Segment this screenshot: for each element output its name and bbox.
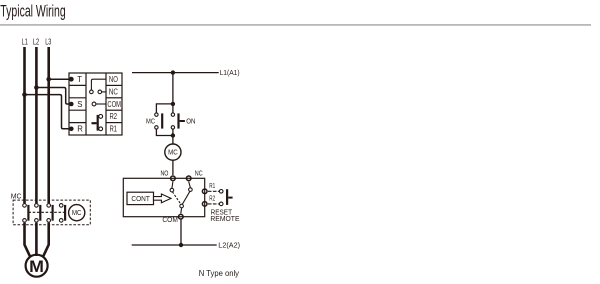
svg-text:NC: NC xyxy=(109,87,118,96)
svg-text:T: T xyxy=(77,75,82,84)
svg-text:ON: ON xyxy=(186,119,195,126)
svg-text:L3: L3 xyxy=(45,37,51,46)
svg-text:NO: NO xyxy=(161,171,169,178)
svg-text:COM: COM xyxy=(107,100,121,109)
svg-text:L2: L2 xyxy=(33,37,39,46)
svg-text:L2(A2): L2(A2) xyxy=(218,242,240,249)
svg-text:R1: R1 xyxy=(110,125,117,134)
svg-text:M: M xyxy=(29,257,44,276)
svg-text:MC: MC xyxy=(168,150,178,157)
svg-text:NO: NO xyxy=(109,75,118,84)
svg-text:R2: R2 xyxy=(110,112,117,121)
svg-text:N Type only: N Type only xyxy=(199,269,239,278)
svg-text:CONT: CONT xyxy=(131,196,150,203)
svg-text:R: R xyxy=(77,125,83,134)
svg-text:L1(A1): L1(A1) xyxy=(220,70,240,77)
svg-text:NC: NC xyxy=(195,171,203,178)
svg-text:REMOTE: REMOTE xyxy=(210,216,239,223)
svg-text:MC: MC xyxy=(11,194,22,201)
svg-text:L1: L1 xyxy=(22,37,28,46)
svg-text:MC: MC xyxy=(146,119,155,126)
svg-text:S: S xyxy=(77,100,82,109)
svg-text:R1: R1 xyxy=(209,183,215,190)
svg-text:Typical Wiring: Typical Wiring xyxy=(0,1,65,20)
svg-text:R2: R2 xyxy=(209,195,215,202)
svg-text:MC: MC xyxy=(72,210,82,217)
svg-text:COM: COM xyxy=(162,217,178,224)
